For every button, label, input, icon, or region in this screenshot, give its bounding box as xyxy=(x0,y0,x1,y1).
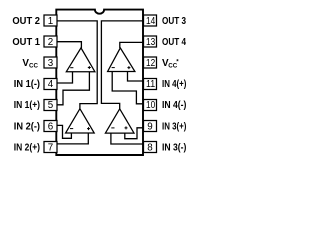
op-amp comparator 3 (bottom-right) xyxy=(105,109,134,133)
wire pin10 IN4- xyxy=(128,72,144,82)
plus input comparator 3 xyxy=(125,126,128,129)
svg-text:IN 3(+): IN 3(+) xyxy=(162,122,186,133)
svg-text:CC: CC xyxy=(29,63,38,70)
pin box 4 xyxy=(44,79,57,90)
svg-text:IN 3(-): IN 3(-) xyxy=(162,143,186,154)
wire pin5 IN1+ xyxy=(57,72,89,105)
wire pin13 OUT4 to comparator4 output xyxy=(120,42,143,47)
svg-text:5: 5 xyxy=(48,100,54,111)
plus input comparator 2 xyxy=(87,127,90,130)
pin box 12 xyxy=(144,57,157,68)
plus input comparator 4 xyxy=(127,66,130,69)
svg-text:4: 4 xyxy=(48,79,54,90)
op-amp comparator 1 (top-left) xyxy=(66,48,95,72)
svg-text:IN 1(+): IN 1(+) xyxy=(14,100,40,111)
package outline DIP-14 with notch xyxy=(56,10,143,155)
pin box 7 xyxy=(44,142,57,153)
pin box 5 xyxy=(44,100,57,111)
wire pin2 OUT1 to comparator1 output xyxy=(57,42,81,48)
svg-text:12: 12 xyxy=(146,58,155,69)
svg-text:14: 14 xyxy=(146,16,156,27)
svg-text:11: 11 xyxy=(146,79,155,90)
minus input comparator 3 xyxy=(111,127,114,129)
op-amp comparator 4 (top-right) xyxy=(108,48,135,72)
svg-text:1: 1 xyxy=(48,16,53,27)
pin box 13 xyxy=(144,36,157,47)
wire pin9 IN3+ xyxy=(125,128,143,139)
pin box 11 xyxy=(144,79,157,90)
plus input comparator 1 xyxy=(88,66,91,69)
minus input comparator 2 xyxy=(70,128,73,130)
pin box 6 xyxy=(44,121,57,132)
pin box 8 xyxy=(144,142,157,153)
wire pin11 IN4+ xyxy=(112,72,143,104)
svg-text:6: 6 xyxy=(48,122,54,133)
svg-text:OUT 3: OUT 3 xyxy=(162,16,186,27)
svg-text:OUT 4: OUT 4 xyxy=(162,37,186,48)
pin box 2 xyxy=(44,36,57,47)
pin box 3 xyxy=(44,57,57,68)
svg-text:IN 2(+): IN 2(+) xyxy=(14,143,40,154)
pin box 10 xyxy=(144,100,157,111)
svg-text:3: 3 xyxy=(48,58,54,69)
svg-text:7: 7 xyxy=(48,143,53,154)
op-amp comparator 2 (bottom-left) xyxy=(66,109,95,133)
wire pin7 IN2+ xyxy=(57,133,88,144)
svg-text:9: 9 xyxy=(147,122,152,133)
svg-text:IN 1(-): IN 1(-) xyxy=(14,79,40,90)
minus input comparator 4 xyxy=(112,67,115,69)
svg-text:IN 4(-): IN 4(-) xyxy=(162,100,186,111)
svg-text:IN 2(-): IN 2(-) xyxy=(14,122,40,133)
minus input comparator 1 xyxy=(70,67,73,69)
wire pin4 IN1- xyxy=(57,72,73,83)
wire pin1 OUT2 to comparator2 output xyxy=(57,21,97,108)
svg-text:8: 8 xyxy=(147,143,153,154)
wire pin6 IN2- xyxy=(57,125,71,138)
svg-text:OUT 2: OUT 2 xyxy=(12,16,40,27)
wire pin14 OUT3 to comparator3 output xyxy=(101,21,143,108)
wire pin8 IN3- xyxy=(111,133,143,144)
pin box 14 xyxy=(144,15,157,26)
pin box 9 xyxy=(144,121,157,132)
svg-text:IN 4(+): IN 4(+) xyxy=(162,79,186,90)
svg-text:13: 13 xyxy=(146,37,156,48)
pin box 1 xyxy=(44,15,57,26)
svg-text:2: 2 xyxy=(48,37,53,48)
svg-text:10: 10 xyxy=(146,100,156,111)
svg-text:OUT 1: OUT 1 xyxy=(12,37,40,48)
